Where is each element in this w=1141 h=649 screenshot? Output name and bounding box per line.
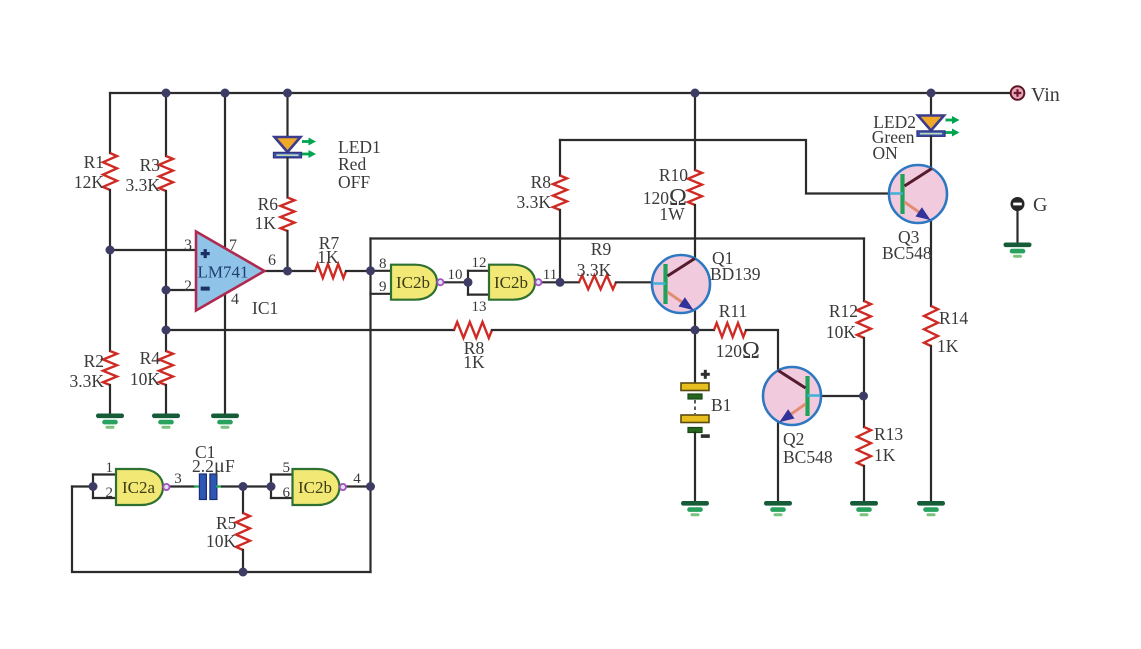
label R5 <box>216 513 237 533</box>
gate IC2b-3 <box>293 469 347 505</box>
label Q1 type <box>710 264 761 284</box>
wire pin8 stub <box>371 270 392 272</box>
wire R9 lead <box>560 281 579 283</box>
wire gate1 output <box>444 281 468 283</box>
svg-text:1K: 1K <box>317 247 339 267</box>
label Vin <box>1031 84 1060 106</box>
LED LED1 <box>274 137 317 158</box>
label R14 value <box>937 336 959 356</box>
resistor R6 <box>281 198 295 232</box>
svg-text:R3: R3 <box>140 155 161 175</box>
label R8v <box>531 172 552 192</box>
svg-text:R1: R1 <box>84 152 104 172</box>
label LED2 on <box>873 143 899 163</box>
svg-text:3.3K: 3.3K <box>125 175 160 195</box>
wire R1 to node <box>109 190 111 250</box>
label pin12 <box>472 255 487 271</box>
wire C1 left lead <box>194 485 200 487</box>
label pin8 <box>379 256 387 272</box>
svg-text:R9: R9 <box>591 239 612 259</box>
gate IC2b-2 <box>489 265 542 300</box>
wire battery to ground <box>694 433 696 501</box>
svg-text:10: 10 <box>448 267 463 283</box>
capacitor C1 <box>199 474 217 500</box>
svg-text:1W: 1W <box>659 204 685 224</box>
label R7 value <box>317 247 339 267</box>
label LED1 red <box>338 154 366 174</box>
wire op-amp output <box>265 270 316 272</box>
svg-text:B1: B1 <box>711 395 731 415</box>
node rail-LED1 <box>283 89 292 98</box>
wire C1 right lead <box>216 485 223 487</box>
label R8h <box>464 338 485 358</box>
transistor Q1 <box>652 255 710 313</box>
resistor R1 <box>103 153 117 190</box>
wire R5 bottom <box>242 550 244 572</box>
wire R10 to Q1 <box>694 205 696 330</box>
node rail-LED2 <box>927 89 936 98</box>
svg-text:12: 12 <box>472 255 487 271</box>
svg-text:4: 4 <box>231 291 239 308</box>
wire R12 branch <box>863 239 865 302</box>
svg-text:Vin: Vin <box>1031 84 1060 106</box>
node pin4 <box>366 482 375 491</box>
ground R2 <box>96 414 124 429</box>
wire R2 to ground <box>109 385 111 413</box>
label R10 power <box>659 204 685 224</box>
svg-text:R5: R5 <box>216 513 237 533</box>
node R1-pin3 <box>106 246 115 255</box>
node feedback-left <box>162 326 171 335</box>
wire Q2 base <box>820 395 864 397</box>
label pin6 gate <box>283 485 291 501</box>
node output-R6 <box>283 267 292 276</box>
op-amp U1 LM741 <box>196 232 265 311</box>
svg-text:IC2b: IC2b <box>396 273 430 292</box>
svg-text:R11: R11 <box>719 301 748 321</box>
resistor R4 <box>159 351 173 385</box>
svg-text:BD139: BD139 <box>710 264 761 284</box>
node pin11 <box>556 278 565 287</box>
resistor R10 <box>688 170 702 205</box>
node rail-R3 <box>162 89 171 98</box>
svg-text:2: 2 <box>184 278 192 295</box>
label pin3 <box>184 237 192 254</box>
label R9 <box>591 239 612 259</box>
ground R13 <box>850 501 878 516</box>
label pin4 <box>231 291 239 308</box>
node rail-pin7 <box>221 89 230 98</box>
svg-text:R14: R14 <box>939 308 968 328</box>
svg-text:9: 9 <box>379 279 387 295</box>
wire R11 lead <box>695 329 714 331</box>
wire R4 to ground <box>165 385 167 413</box>
resistor R5 <box>236 513 250 550</box>
wire R3 to pin2 node <box>165 191 167 290</box>
label pin10 <box>448 267 463 283</box>
label B1 <box>711 395 731 415</box>
ground B1 <box>681 501 709 516</box>
node pin8 <box>366 266 375 275</box>
label R9 value <box>577 260 612 280</box>
svg-text:IC2a: IC2a <box>122 478 156 497</box>
svg-text:1: 1 <box>106 460 114 476</box>
label LED2 <box>873 112 916 132</box>
label R10 <box>659 165 688 185</box>
label C1 <box>195 442 215 462</box>
label pin4 gate <box>353 471 361 487</box>
svg-text:6: 6 <box>268 252 276 269</box>
svg-text:μ: μ <box>214 455 225 477</box>
svg-text:IC2b: IC2b <box>298 478 332 497</box>
svg-text:BC548: BC548 <box>783 447 833 467</box>
svg-text:ON: ON <box>873 143 899 163</box>
svg-text:LM741: LM741 <box>198 263 249 282</box>
label R10 value <box>643 185 687 211</box>
resistor R13 <box>857 427 871 466</box>
svg-text:R12: R12 <box>829 301 858 321</box>
label R11 value <box>716 338 760 364</box>
wire R7 to pin8 node <box>346 270 371 272</box>
wire LED2 branch <box>930 93 932 116</box>
label pin2 <box>184 278 192 295</box>
wire pin7-pin4 vertical <box>224 93 226 413</box>
wire gate2 output pin11 <box>543 281 561 283</box>
svg-text:3.3K: 3.3K <box>516 192 551 212</box>
label R4 value <box>130 369 161 389</box>
svg-text:IC2b: IC2b <box>494 273 528 292</box>
wire G terminal lead <box>1016 211 1018 242</box>
label R3 value <box>125 175 160 195</box>
svg-text:1K: 1K <box>874 445 896 465</box>
label pin9 <box>379 279 387 295</box>
svg-text:120: 120 <box>716 341 743 361</box>
terminal Vin <box>1011 86 1025 100</box>
label LED2 green <box>872 127 915 147</box>
wire LED1 branch <box>286 93 288 137</box>
label pin1 <box>106 460 114 476</box>
label R7 <box>319 233 340 253</box>
label pin3 gate <box>174 471 182 487</box>
wire gate IC2b-osc output pin4 <box>347 485 371 487</box>
svg-text:R6: R6 <box>258 194 279 214</box>
svg-text:13: 13 <box>472 299 487 315</box>
label LED1 <box>338 137 381 157</box>
svg-text:G: G <box>1033 194 1047 216</box>
svg-text:3: 3 <box>184 237 192 254</box>
wire R10 branch <box>694 93 696 170</box>
wire pin12/13 bracket <box>468 271 489 295</box>
svg-text:R10: R10 <box>659 165 688 185</box>
label R1 value <box>74 172 105 192</box>
resistor R7 <box>315 264 346 278</box>
node Q2-base <box>859 392 868 401</box>
label IC1 <box>252 298 278 318</box>
label C1 value <box>192 455 235 477</box>
wire C1 to node <box>222 485 271 487</box>
svg-text:7: 7 <box>229 237 237 254</box>
wire gate IC2a output <box>170 485 195 487</box>
svg-text:Ω: Ω <box>742 338 760 364</box>
label R13 <box>874 424 903 444</box>
svg-text:1K: 1K <box>463 352 485 372</box>
svg-text:R13: R13 <box>874 424 903 444</box>
wire feedback bottom line <box>166 329 454 331</box>
label R12 <box>829 301 858 321</box>
label pin5 <box>283 460 291 476</box>
svg-text:5: 5 <box>283 460 291 476</box>
label pin2 gate <box>106 485 114 501</box>
svg-text:F: F <box>225 456 235 476</box>
label R8h value <box>463 352 485 372</box>
gate IC2b-1 <box>391 265 444 300</box>
svg-text:12K: 12K <box>74 172 105 192</box>
wire R13 to ground <box>863 466 865 500</box>
label R2 <box>84 351 104 371</box>
wire R1-R2 segment <box>109 250 111 351</box>
wire R9 to Q1 base <box>616 281 653 283</box>
label Q1 <box>712 248 733 268</box>
wire pin9 stub <box>371 293 392 295</box>
wire Q3 base run <box>560 140 890 194</box>
label R11 <box>719 301 748 321</box>
wire Q3 emitter to R14 <box>930 220 932 306</box>
wire top Vin rail <box>110 92 1010 94</box>
resistor R2 <box>103 351 117 385</box>
svg-text:Red: Red <box>338 154 366 174</box>
label R4 <box>140 348 161 368</box>
wire pin2 line <box>166 289 196 291</box>
label R2 value <box>69 371 104 391</box>
svg-text:8: 8 <box>379 256 387 272</box>
ground Q2 emitter <box>764 501 792 516</box>
label Q2 type <box>783 447 833 467</box>
label R1 <box>84 152 104 172</box>
wire R3 branch top <box>165 93 167 156</box>
wire pin8/9 vertical <box>369 239 371 573</box>
ground R4 <box>152 414 180 429</box>
resistor R3 <box>159 156 173 191</box>
wire R6 to output node <box>286 231 288 271</box>
wire feedback top line <box>371 237 865 239</box>
resistor R8 3.3K <box>553 176 567 211</box>
resistor R14 <box>924 306 938 346</box>
label G <box>1033 194 1047 216</box>
node pin5/6 <box>267 482 276 491</box>
wire battery top <box>694 330 696 383</box>
svg-text:R8: R8 <box>531 172 552 192</box>
label pin7 <box>229 237 237 254</box>
svg-text:1K: 1K <box>255 213 277 233</box>
svg-text:R2: R2 <box>84 351 104 371</box>
transistor Q2 <box>763 367 821 425</box>
resistor R11 <box>714 323 746 337</box>
wire pin1/2 bracket <box>93 475 116 499</box>
wire R1 branch top <box>109 93 111 153</box>
wire R12 to node <box>863 338 865 427</box>
wire pin5/6 bracket <box>271 475 293 499</box>
label R6 <box>258 194 279 214</box>
battery B1 <box>681 383 709 433</box>
wire R8 3.3K branch <box>559 140 561 176</box>
ground G <box>1004 243 1032 258</box>
label Q3 <box>898 227 920 247</box>
label pin11 <box>543 267 557 283</box>
transistor Q3 <box>889 165 947 223</box>
label R12 value <box>826 322 857 342</box>
resistor R12 <box>857 301 871 338</box>
svg-text:BC548: BC548 <box>882 243 932 263</box>
svg-text:OFF: OFF <box>338 172 370 192</box>
svg-text:2.2: 2.2 <box>192 456 214 476</box>
resistor R9 <box>579 275 616 289</box>
wire feedback to Q1 emitter node <box>492 329 695 331</box>
label LED1 off <box>338 172 370 192</box>
label R5 value <box>206 531 237 551</box>
svg-text:Q2: Q2 <box>783 429 804 449</box>
svg-text:R4: R4 <box>140 348 161 368</box>
svg-text:10K: 10K <box>826 322 857 342</box>
node pin10 <box>464 278 473 287</box>
node Q1-emitter <box>691 326 700 335</box>
node C1-R5 <box>239 482 248 491</box>
gate IC2a <box>116 469 169 505</box>
label R8v value <box>516 192 551 212</box>
svg-text:2: 2 <box>106 485 114 501</box>
svg-text:4: 4 <box>353 471 361 487</box>
label R6 value <box>255 213 277 233</box>
terminal G <box>1011 197 1025 211</box>
label B1 minus <box>701 434 710 438</box>
node rail-R10 <box>691 89 700 98</box>
label R14 <box>939 308 968 328</box>
wire R11 to Q2 collector <box>746 330 778 500</box>
label R13 value <box>874 445 896 465</box>
wire oscillator left loop <box>72 487 371 573</box>
node R5-bottom <box>239 568 248 577</box>
label B1 plus <box>701 370 710 379</box>
label Q2 <box>783 429 804 449</box>
label pin6 <box>268 252 276 269</box>
label Q3 type <box>882 243 932 263</box>
ground pin4 <box>211 414 239 429</box>
svg-text:10K: 10K <box>130 369 161 389</box>
ground R14 <box>917 501 945 516</box>
svg-text:3.3K: 3.3K <box>69 371 104 391</box>
svg-text:10K: 10K <box>206 531 237 551</box>
wire R3-R4 segment <box>165 290 167 351</box>
node pin1/2 <box>89 482 98 491</box>
svg-text:3: 3 <box>174 471 182 487</box>
wire R5 top <box>242 487 244 514</box>
wire R8 to pin11 node <box>559 210 561 282</box>
wire LED1 to R6 <box>286 158 288 198</box>
wire LED2 to Q3 <box>930 137 932 169</box>
svg-text:11: 11 <box>543 267 557 283</box>
svg-text:3.3K: 3.3K <box>577 260 612 280</box>
label R3 <box>140 155 161 175</box>
svg-text:6: 6 <box>283 485 291 501</box>
node R3-pin2 <box>162 286 171 295</box>
svg-text:1K: 1K <box>937 336 959 356</box>
wire pin3 line <box>110 249 196 251</box>
svg-text:IC1: IC1 <box>252 298 278 318</box>
label pin13 <box>472 299 487 315</box>
resistor R8 1K <box>454 322 492 338</box>
LED LED2 <box>917 116 960 137</box>
wire R14 to ground <box>930 346 932 500</box>
